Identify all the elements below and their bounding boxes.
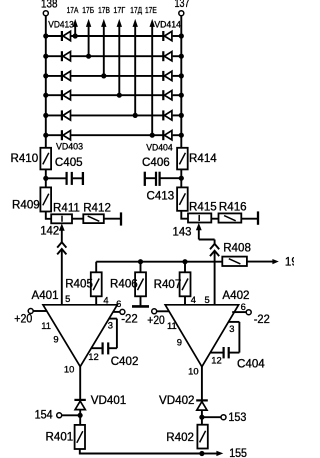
svg-text:C405: C405 xyxy=(55,156,83,169)
svg-text:R410: R410 xyxy=(10,152,38,165)
diode right column row 2 xyxy=(163,51,172,61)
svg-text:R407: R407 xyxy=(154,278,182,291)
resistor R407 xyxy=(154,272,191,296)
wire matrix row 3 xyxy=(46,75,182,77)
pin 12 / capacitor C402 xyxy=(88,342,138,368)
wiper arrow from node 143 to R415 xyxy=(196,223,215,244)
svg-text:R408: R408 xyxy=(223,242,251,255)
wire break chevrons on 143 line xyxy=(210,244,219,256)
svg-text:A401: A401 xyxy=(32,289,59,302)
junction row 6 / left bus xyxy=(43,133,48,138)
diode left column row 4 xyxy=(62,90,71,100)
junction row 1 / left bus xyxy=(43,33,48,38)
junction C405 tap xyxy=(43,176,48,181)
wire R411 to R412 xyxy=(72,218,83,220)
svg-text:R412: R412 xyxy=(83,201,111,214)
junction row 2 / right bus xyxy=(179,54,184,59)
wire matrix row 4 xyxy=(46,94,182,96)
svg-text:R401: R401 xyxy=(46,431,74,444)
wire A401 output down through VD401 xyxy=(79,367,81,425)
junction row 4 / column 4 xyxy=(117,93,122,98)
pin 3 circuit A402 xyxy=(228,322,239,353)
junction VD402 / 153 xyxy=(199,415,204,420)
wire left bus (138 down to R410) xyxy=(45,16,47,149)
svg-text:-22: -22 xyxy=(121,312,138,325)
svg-text:17Б: 17Б xyxy=(82,5,94,15)
resistor R408 xyxy=(222,242,251,267)
svg-text:VD401: VD401 xyxy=(91,394,126,407)
svg-text:R414: R414 xyxy=(189,152,217,165)
op-amp A402 xyxy=(165,289,249,367)
junction row 3 / right bus xyxy=(179,73,184,78)
capacitor C406 xyxy=(142,156,181,186)
svg-text:C406: C406 xyxy=(142,156,170,169)
resistor R416 xyxy=(219,200,247,222)
junction row 2 / column 2 xyxy=(86,54,91,59)
svg-text:4: 4 xyxy=(191,294,196,305)
resistor C413 xyxy=(146,187,187,210)
diode right column row 6 xyxy=(163,130,172,140)
resistor R401 xyxy=(46,425,86,449)
resistor R405 xyxy=(65,272,102,296)
svg-text:6: 6 xyxy=(241,301,246,312)
svg-text:VD414: VD414 xyxy=(154,19,181,30)
terminal 153 xyxy=(202,411,247,424)
wire R415 to R416 xyxy=(211,218,218,220)
svg-text:R406: R406 xyxy=(110,278,138,291)
wire break chevrons on 142 line xyxy=(57,242,66,254)
node 17Е (column 6 with up arrow) xyxy=(145,5,157,135)
svg-text:12: 12 xyxy=(211,355,221,366)
svg-text:9: 9 xyxy=(177,337,182,348)
wire bias rail (R405/R406/R407 tops to R408) xyxy=(96,262,222,273)
junction row 1 / column 1 xyxy=(73,33,78,38)
junction row 6 / right bus xyxy=(179,133,184,138)
resistor R412 xyxy=(83,201,111,223)
wire R409 to R411 xyxy=(46,212,51,219)
svg-text:6: 6 xyxy=(116,298,121,309)
junction row 3 / left bus xyxy=(43,73,48,78)
svg-text:VD402: VD402 xyxy=(159,394,194,407)
wire left bus R410 to R409 xyxy=(45,169,47,187)
diode left column row 6 xyxy=(62,130,71,140)
node 17Б (column 2 with up arrow) xyxy=(82,5,94,56)
svg-text:12: 12 xyxy=(88,351,98,362)
node 17Г (column 4 with up arrow) xyxy=(113,5,125,95)
svg-text:R411: R411 xyxy=(53,201,80,214)
svg-text:R402: R402 xyxy=(166,431,194,444)
junction row 5 / left bus xyxy=(43,113,48,118)
svg-text:155: 155 xyxy=(229,447,247,458)
wire R401 bottom to R402 bottom xyxy=(80,449,202,454)
diode left column row 1 xyxy=(62,31,71,41)
svg-text:9: 9 xyxy=(53,333,58,344)
wire matrix row 6 xyxy=(46,134,182,136)
diode VD401 xyxy=(74,394,126,409)
terminator bar after R416 xyxy=(257,211,259,224)
svg-text:142: 142 xyxy=(40,225,59,238)
svg-text:17Д: 17Д xyxy=(130,5,142,15)
junction VD401 / 154 xyxy=(78,413,83,418)
svg-text:C402: C402 xyxy=(111,355,139,368)
wire R407 to A402 pin 4 xyxy=(184,296,186,305)
diode left column row 2 xyxy=(62,51,71,61)
svg-text:+20: +20 xyxy=(147,314,165,327)
junction row 5 / right bus xyxy=(179,113,184,118)
wire matrix row 5 xyxy=(46,114,182,116)
svg-text:5: 5 xyxy=(204,294,209,305)
svg-text:10: 10 xyxy=(188,366,198,377)
svg-text:137: 137 xyxy=(175,0,190,10)
junction R407 top xyxy=(182,259,187,264)
wire right bus (137 down to R414) xyxy=(180,16,182,149)
junction R406 top xyxy=(138,259,143,264)
junction row 3 / column 3 xyxy=(101,73,106,78)
junction row 5 / column 5 xyxy=(133,113,138,118)
terminator bar after R412 xyxy=(120,212,122,225)
resistor R406 xyxy=(110,272,146,296)
svg-text:17Е: 17Е xyxy=(145,5,157,15)
terminal 138 xyxy=(41,0,58,16)
svg-text:143: 143 xyxy=(173,225,192,238)
pin 6 stub A402 with terminal xyxy=(232,301,251,315)
wire 142 line down to A401 pin 5 xyxy=(61,249,63,305)
resistor R415 (tapped) xyxy=(188,200,217,222)
terminal 137 xyxy=(175,0,190,16)
wire matrix row 1 xyxy=(46,35,182,37)
junction row 6 / column 6 xyxy=(150,133,155,138)
svg-text:R409: R409 xyxy=(12,199,40,212)
resistor R402 xyxy=(166,425,208,449)
node 17А (column 1 with up arrow) xyxy=(67,5,79,36)
wire A402 output down through VD402 xyxy=(201,367,203,425)
svg-text:11: 11 xyxy=(167,320,177,331)
diode VD402 xyxy=(159,394,208,410)
junction row 4 / right bus xyxy=(179,93,184,98)
svg-text:C404: C404 xyxy=(237,357,265,370)
wire R406 to chassis bar xyxy=(140,296,142,306)
pin 6 stub A401 with terminal xyxy=(113,298,125,315)
node 17В (column 3 with up arrow) xyxy=(98,5,110,76)
wire right bus R414 to C413 xyxy=(180,169,182,187)
resistor R410 xyxy=(10,148,51,170)
svg-text:R415: R415 xyxy=(189,200,217,213)
wire C413 to R415 xyxy=(181,211,188,219)
diode right column row 4 xyxy=(163,90,172,100)
node 17Д (column 5 with up arrow) xyxy=(130,5,142,115)
svg-text:17А: 17А xyxy=(67,5,79,15)
junction row 1 / right bus xyxy=(179,33,184,38)
wire matrix row 2 xyxy=(46,55,182,57)
svg-text:3: 3 xyxy=(229,323,234,334)
svg-text:+20: +20 xyxy=(14,313,32,326)
svg-text:4: 4 xyxy=(103,294,108,305)
junction R402 bottom xyxy=(199,451,204,456)
wire R416 to end bar xyxy=(241,218,257,220)
pin 11 stub A402 with terminal +20 xyxy=(147,309,169,327)
svg-text:17Г: 17Г xyxy=(113,5,125,15)
svg-text:VD403: VD403 xyxy=(56,141,83,152)
svg-text:17В: 17В xyxy=(98,5,110,15)
junction row 2 / left bus xyxy=(43,54,48,59)
wire R408 to output arrow 19 xyxy=(247,259,279,264)
capacitor C405 xyxy=(46,156,83,185)
wire 143 line down to A402 pin 5 xyxy=(214,251,216,305)
svg-text:153: 153 xyxy=(228,411,246,424)
pin 3 circuit A401 xyxy=(108,319,117,349)
wire to output arrow 155 xyxy=(202,451,223,456)
diode right column row 5 xyxy=(163,110,172,120)
resistor R414 xyxy=(177,148,217,170)
svg-text:VD413: VD413 xyxy=(48,19,74,30)
svg-text:VD404: VD404 xyxy=(146,142,173,153)
svg-text:11: 11 xyxy=(41,320,51,331)
pin 11 stub A401 with terminal +20 xyxy=(14,309,47,326)
svg-text:154: 154 xyxy=(35,409,54,422)
svg-text:-22: -22 xyxy=(254,313,270,326)
chassis bar under R406 xyxy=(132,305,149,308)
junction row 4 / left bus xyxy=(43,93,48,98)
op-amp A401 xyxy=(32,289,118,366)
svg-text:5: 5 xyxy=(65,293,70,304)
svg-text:3: 3 xyxy=(108,320,113,331)
svg-text:C413: C413 xyxy=(146,190,174,203)
svg-text:19: 19 xyxy=(285,255,294,268)
diode left column row 3 xyxy=(62,71,71,81)
wire R405 to A401 pin 4 xyxy=(95,296,97,305)
wire R412 to end bar xyxy=(104,218,120,220)
wiper arrow from node 142 to R411 xyxy=(59,223,65,242)
diode right column row 1 xyxy=(163,31,172,41)
resistor R409 xyxy=(12,187,51,211)
junction C406 tap xyxy=(179,176,184,181)
svg-text:R405: R405 xyxy=(65,278,93,291)
svg-text:138: 138 xyxy=(41,0,58,11)
svg-text:R416: R416 xyxy=(219,200,247,213)
resistor R411 (tapped) xyxy=(51,201,80,223)
pin 12 / capacitor C404 xyxy=(210,347,265,370)
diode right column row 3 xyxy=(163,71,172,81)
terminal 154 xyxy=(35,409,81,422)
diode left column row 5 xyxy=(62,110,71,120)
svg-text:10: 10 xyxy=(64,363,74,374)
